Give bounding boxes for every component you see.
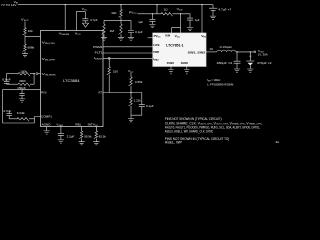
resistor 3900	[7, 83, 18, 85]
ground	[93, 142, 99, 145]
svg-text:FREQ: FREQ	[75, 123, 81, 127]
svg-text:150pF: 150pF	[17, 86, 26, 90]
svg-text:3900: 3900	[19, 79, 26, 83]
svg-text:RT: RT	[99, 91, 103, 95]
resistor 1.21k	[130, 93, 132, 98]
op-amp U1 controller LTC3884 box	[41, 31, 104, 127]
wire AGND stub	[46, 127, 48, 131]
svg-text:698k: 698k	[27, 46, 34, 50]
svg-text:4.7µF ×7: 4.7µF ×7	[218, 8, 231, 12]
node VOUT terminal	[254, 51, 256, 53]
ground	[118, 37, 124, 40]
wire SGND stub	[186, 66, 188, 69]
ground	[79, 142, 85, 145]
svg-text:LTC7851-1: LTC7851-1	[166, 44, 183, 48]
ground triangle	[82, 23, 88, 27]
svg-text:PWR: PWR	[153, 50, 159, 54]
ground	[58, 140, 64, 143]
svg-text:RUN: RUN	[165, 33, 170, 37]
svg-text:2.2µF: 2.2µF	[67, 134, 75, 138]
ground	[19, 99, 25, 102]
wire PGND stub	[170, 66, 172, 69]
svg-text:0.1µF: 0.1µF	[146, 104, 154, 108]
resistor 1M	[103, 20, 105, 24]
svg-text:150: 150	[113, 69, 118, 73]
svg-text:ASEL0, ASEL1, WP, SHARE_CLK, S: ASEL0, ASEL1, WP, SHARE_CLK, SYNC	[165, 129, 214, 133]
wire RT line	[103, 92, 142, 94]
ground SGND	[184, 70, 189, 75]
op-amp U2 power stage LTC7051	[153, 33, 206, 66]
svg-text:90.9k: 90.9k	[84, 135, 92, 139]
capacitor 0.1uF	[130, 20, 132, 30]
svg-text:FLT1: FLT1	[95, 51, 103, 55]
ground	[22, 54, 28, 57]
ground	[128, 119, 134, 122]
svg-text:PWM1: PWM1	[93, 45, 103, 49]
svg-text:180µF ×3: 180µF ×3	[217, 61, 233, 65]
inductor 0.33uH	[217, 50, 236, 52]
svg-text:10k: 10k	[28, 29, 34, 33]
wire divider node	[25, 35, 41, 37]
ground	[44, 131, 50, 134]
capacitor 1uF VDD	[189, 14, 191, 18]
svg-text:LTC3884: LTC3884	[63, 79, 80, 83]
svg-text:1.21k: 1.21k	[134, 99, 142, 103]
svg-text:SW1, SW2: SW1, SW2	[188, 50, 206, 54]
capacitor 2.2uF	[60, 127, 62, 134]
svg-text:6.04k: 6.04k	[17, 111, 25, 115]
node open terminal	[36, 73, 38, 75]
ground	[187, 28, 193, 31]
svg-text:ASEL, WP: ASEL, WP	[165, 141, 182, 145]
resistor 698k	[24, 37, 26, 44]
wire PWM	[103, 52, 153, 54]
svg-text:PGI: PGI	[41, 91, 46, 95]
wire SW out	[206, 51, 217, 53]
wire FLTB	[103, 46, 153, 48]
resistor 1M second	[120, 20, 122, 24]
svg-text:1V, 30A: 1V, 30A	[258, 53, 268, 57]
ground PGND	[168, 70, 173, 75]
capacitor 6.8nF	[5, 74, 7, 81]
wire IMAX	[103, 57, 153, 59]
svg-text:100k: 100k	[20, 70, 27, 74]
node rail junctions	[65, 4, 66, 5]
svg-text:1µF: 1µF	[138, 20, 143, 24]
svg-text:7V TO 14V: 7V TO 14V	[1, 3, 17, 7]
capacitor 1uF input side	[151, 14, 153, 19]
resistor 10ohm from rail	[120, 5, 122, 10]
ground	[247, 69, 253, 72]
capacitor 180uF x3	[236, 52, 238, 61]
wire VCC tee	[76, 12, 85, 31]
ground	[128, 37, 134, 40]
capacitor 4.7uF	[82, 19, 88, 21]
svg-text:FLTB: FLTB	[153, 43, 160, 47]
wire VIN top rail	[18, 4, 213, 6]
wire FB line	[3, 89, 41, 91]
ground	[234, 69, 240, 72]
svg-text:2Ω: 2Ω	[210, 47, 213, 51]
capacitor 0.1uF filter	[141, 93, 143, 105]
wire COMP pin	[3, 117, 41, 124]
svg-text:470µF ×2: 470µF ×2	[257, 61, 272, 65]
wire PVCC node	[138, 5, 162, 14]
wire VDD node	[173, 13, 191, 15]
svg-text:0.1µF: 0.1µF	[135, 30, 143, 34]
ground	[101, 37, 107, 40]
resistor 90.9k	[81, 127, 83, 131]
svg-text:PGND: PGND	[167, 61, 175, 65]
svg-text:L: FP1008R3-R330M: L: FP1008R3-R330M	[207, 83, 234, 87]
svg-text:10Ω: 10Ω	[111, 11, 117, 15]
svg-text:SGND: SGND	[181, 61, 189, 65]
svg-text:3.65k: 3.65k	[135, 80, 143, 84]
svg-text:0.33µH: 0.33µH	[220, 45, 232, 49]
resistor 100k feedforward	[6, 73, 18, 75]
wire VIN pin stub	[201, 5, 203, 33]
svg-text:COMP1: COMP1	[41, 115, 52, 119]
wire rail to controller VINSNS pin	[64, 5, 66, 31]
wire VDD to RUN/VCC pins	[172, 14, 181, 33]
capacitor 470uF x2 polarized	[249, 52, 251, 61]
resistor 10k	[24, 21, 26, 27]
svg-text:1µF: 1µF	[195, 18, 200, 22]
resistor 1ohm	[161, 13, 173, 17]
wire to VOUT	[236, 51, 254, 53]
svg-text:4.7µF: 4.7µF	[90, 18, 98, 22]
resistor 65.5k	[95, 127, 97, 131]
svg-text:65.5k: 65.5k	[99, 135, 107, 139]
ground	[149, 25, 155, 28]
svg-text:PINS NOT SHOWN IN (TYPICAL CIR: PINS NOT SHOWN IN (TYPICAL CIRCUIT):	[165, 117, 223, 121]
wire left bus	[2, 90, 4, 123]
wire PVCC stub	[148, 37, 153, 39]
svg-text:6.8nF: 6.8nF	[2, 78, 11, 82]
ground	[210, 16, 216, 19]
resistor 3.65k	[130, 72, 132, 77]
svg-text:4.7nF: 4.7nF	[3, 109, 12, 113]
svg-text:1M: 1M	[110, 29, 115, 33]
capacitor input bank	[212, 5, 214, 8]
wire bus y20.4	[104, 19, 131, 21]
resistor 150	[108, 59, 110, 66]
svg-text:AGND: AGND	[42, 123, 51, 127]
